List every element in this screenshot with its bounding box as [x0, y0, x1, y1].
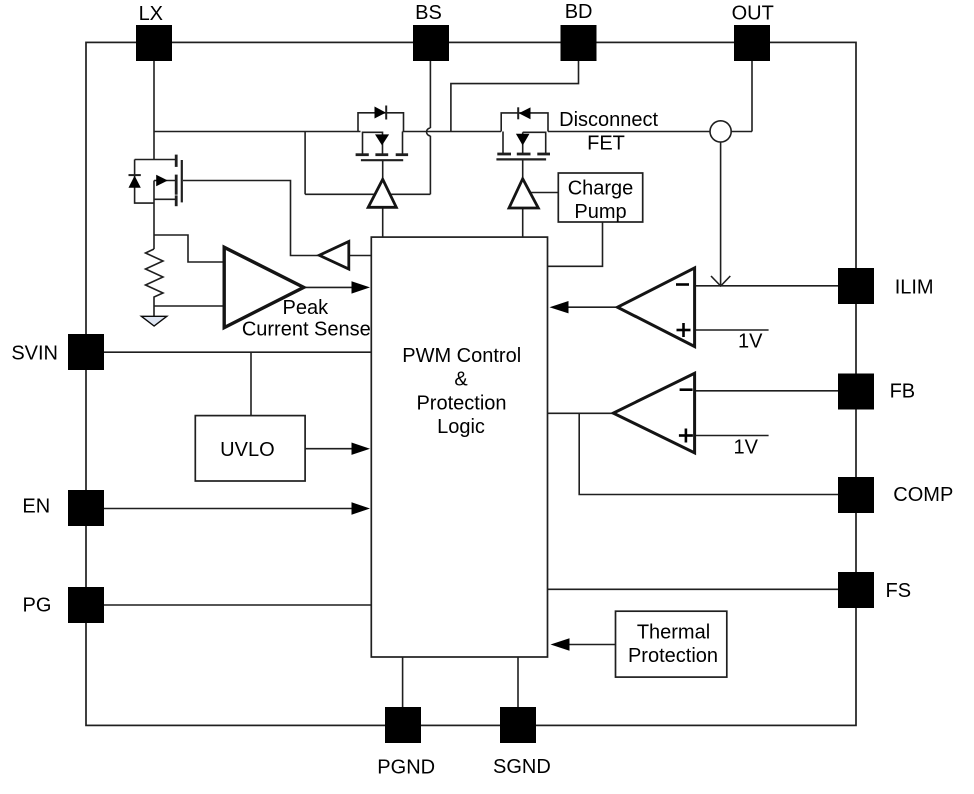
svg-text:Thermal: Thermal — [637, 622, 710, 644]
wire EN line — [104, 508, 356, 510]
arrowhead FB into PWM (ILIM cmp line) — [551, 638, 570, 650]
wire SVIN line — [104, 351, 371, 353]
svg-text:SGND: SGND — [493, 756, 551, 778]
wire BS driver to PWM — [382, 207, 384, 237]
box Charge Pump — [558, 173, 642, 222]
wire FB plus 1V — [695, 435, 769, 437]
minus sign U6 — [676, 283, 689, 286]
ground — [141, 316, 166, 326]
svg-text:Current Sense: Current Sense — [242, 319, 371, 341]
pin OUT — [734, 25, 770, 61]
wire sense diode loop — [135, 160, 154, 204]
outer border — [86, 42, 856, 725]
svg-text:FS: FS — [886, 580, 912, 602]
svg-text:EN: EN — [22, 495, 50, 517]
high-side FET Q2 — [356, 106, 409, 161]
pin BD — [561, 25, 597, 61]
pin FB — [838, 374, 874, 410]
pin SVIN — [68, 334, 104, 370]
svg-text:COMP: COMP — [893, 484, 953, 506]
svg-text:BS: BS — [415, 2, 442, 24]
wire sense body line — [154, 180, 176, 182]
driver U2 (BS FET gate driver) — [368, 179, 396, 207]
box Thermal Protection — [616, 611, 727, 677]
wire FS line — [548, 588, 839, 590]
wire BD to rail — [451, 60, 579, 132]
svg-text:Protection: Protection — [416, 392, 506, 414]
svg-text:BD: BD — [565, 1, 593, 23]
svg-text:UVLO: UVLO — [220, 439, 274, 461]
svg-text:Peak: Peak — [283, 297, 330, 319]
wire sense source line — [135, 159, 177, 161]
pin EN — [68, 490, 104, 526]
svg-text:1V: 1V — [734, 436, 759, 458]
svg-text:Protection: Protection — [628, 645, 718, 667]
svg-text:LX: LX — [139, 3, 163, 25]
buffer U4 (sense FET gate) — [319, 242, 349, 270]
svg-text:Charge: Charge — [568, 178, 634, 200]
wire main rail mid segment — [403, 131, 502, 133]
wire sense down to resistor — [153, 181, 155, 250]
svg-text:PWM Control: PWM Control — [402, 345, 521, 367]
svg-text:Disconnect: Disconnect — [559, 109, 658, 131]
svg-text:Pump: Pump — [574, 201, 626, 223]
wire ILIM plus 1V — [695, 329, 769, 331]
wire FB minus — [695, 390, 838, 392]
svg-text:SVIN: SVIN — [11, 342, 58, 364]
wire thermal arrow line — [569, 644, 616, 646]
pin BS — [413, 25, 449, 61]
pin ILIM — [838, 268, 874, 304]
wire sense drain line — [154, 198, 176, 200]
wire amp output — [304, 286, 354, 288]
svg-text:OUT: OUT — [732, 3, 774, 25]
plus sign U6 — [677, 323, 691, 337]
wire BS lower — [429, 136, 431, 195]
svg-text:PG: PG — [23, 594, 52, 616]
wire current sense drop — [720, 142, 722, 286]
wire disc gate — [522, 160, 524, 179]
wire UVLO output — [305, 448, 356, 450]
driver U3 (disconnect FET gate driver) — [509, 179, 538, 208]
wire rail circle to OUT — [731, 131, 752, 133]
pin LX — [136, 25, 172, 61]
wire sense gate path — [183, 181, 319, 256]
wire resistor bottom to amp — [154, 305, 224, 307]
pin PGND — [385, 707, 421, 743]
pin FS — [838, 572, 874, 608]
svg-text:PGND: PGND — [377, 756, 435, 778]
wire FB comp output — [548, 412, 614, 414]
svg-text:1V: 1V — [738, 331, 763, 353]
svg-text:FB: FB — [890, 381, 916, 403]
wire BS upper — [429, 60, 431, 128]
minus sign U7 — [680, 388, 693, 391]
wire disc driver to PWM — [522, 208, 524, 237]
svg-text:ILIM: ILIM — [895, 277, 934, 299]
wire bootstrap horizontal — [305, 193, 430, 195]
svg-text:&: & — [454, 369, 468, 391]
open arrowhead down — [711, 276, 730, 286]
comparator U7 FB — [613, 373, 694, 453]
arrowhead ILIM comp output — [550, 301, 569, 313]
pin PG — [68, 587, 104, 623]
wire SVIN to UVLO — [250, 352, 252, 415]
resistor R — [146, 249, 164, 316]
node sense bubble (circle on rail) — [710, 121, 731, 142]
box PWM Control & Protection Logic — [371, 237, 547, 657]
wire buffer input — [349, 255, 372, 257]
wire bootstrap left leg — [304, 132, 306, 195]
svg-text:FET: FET — [587, 133, 625, 155]
wire charge pump output — [548, 222, 603, 266]
pin COMP — [838, 477, 874, 513]
wire hop BS over rail — [426, 128, 430, 136]
wire COMP branch — [579, 413, 838, 494]
comparator U6 ILIM — [618, 268, 695, 347]
wire PGND — [402, 657, 404, 707]
wire resistor top to amp — [154, 235, 224, 262]
pin SGND — [500, 707, 536, 743]
wire main rail right segment — [548, 131, 710, 133]
wire SGND — [517, 657, 519, 707]
arrowhead EN — [352, 502, 371, 514]
disconnect FET Q3 — [496, 107, 550, 159]
sense FET Q1 — [129, 155, 182, 207]
wire charge pump input — [526, 192, 558, 194]
wire OUT vertical — [751, 60, 753, 132]
arrowhead UVLO output — [352, 443, 371, 455]
wire PG line — [104, 604, 371, 606]
arrowhead amp output into PWM — [352, 281, 371, 293]
wire LX vertical — [153, 61, 155, 160]
box UVLO — [195, 416, 305, 481]
op-amp U5 Peak Current Sense — [224, 247, 304, 327]
wire main rail left segment — [154, 131, 361, 133]
plus sign U7 — [679, 429, 693, 443]
svg-text:Logic: Logic — [437, 416, 485, 438]
wire ILIM comp output — [563, 306, 618, 308]
wire BS gate — [382, 161, 384, 179]
wire ILIM minus — [695, 285, 838, 287]
